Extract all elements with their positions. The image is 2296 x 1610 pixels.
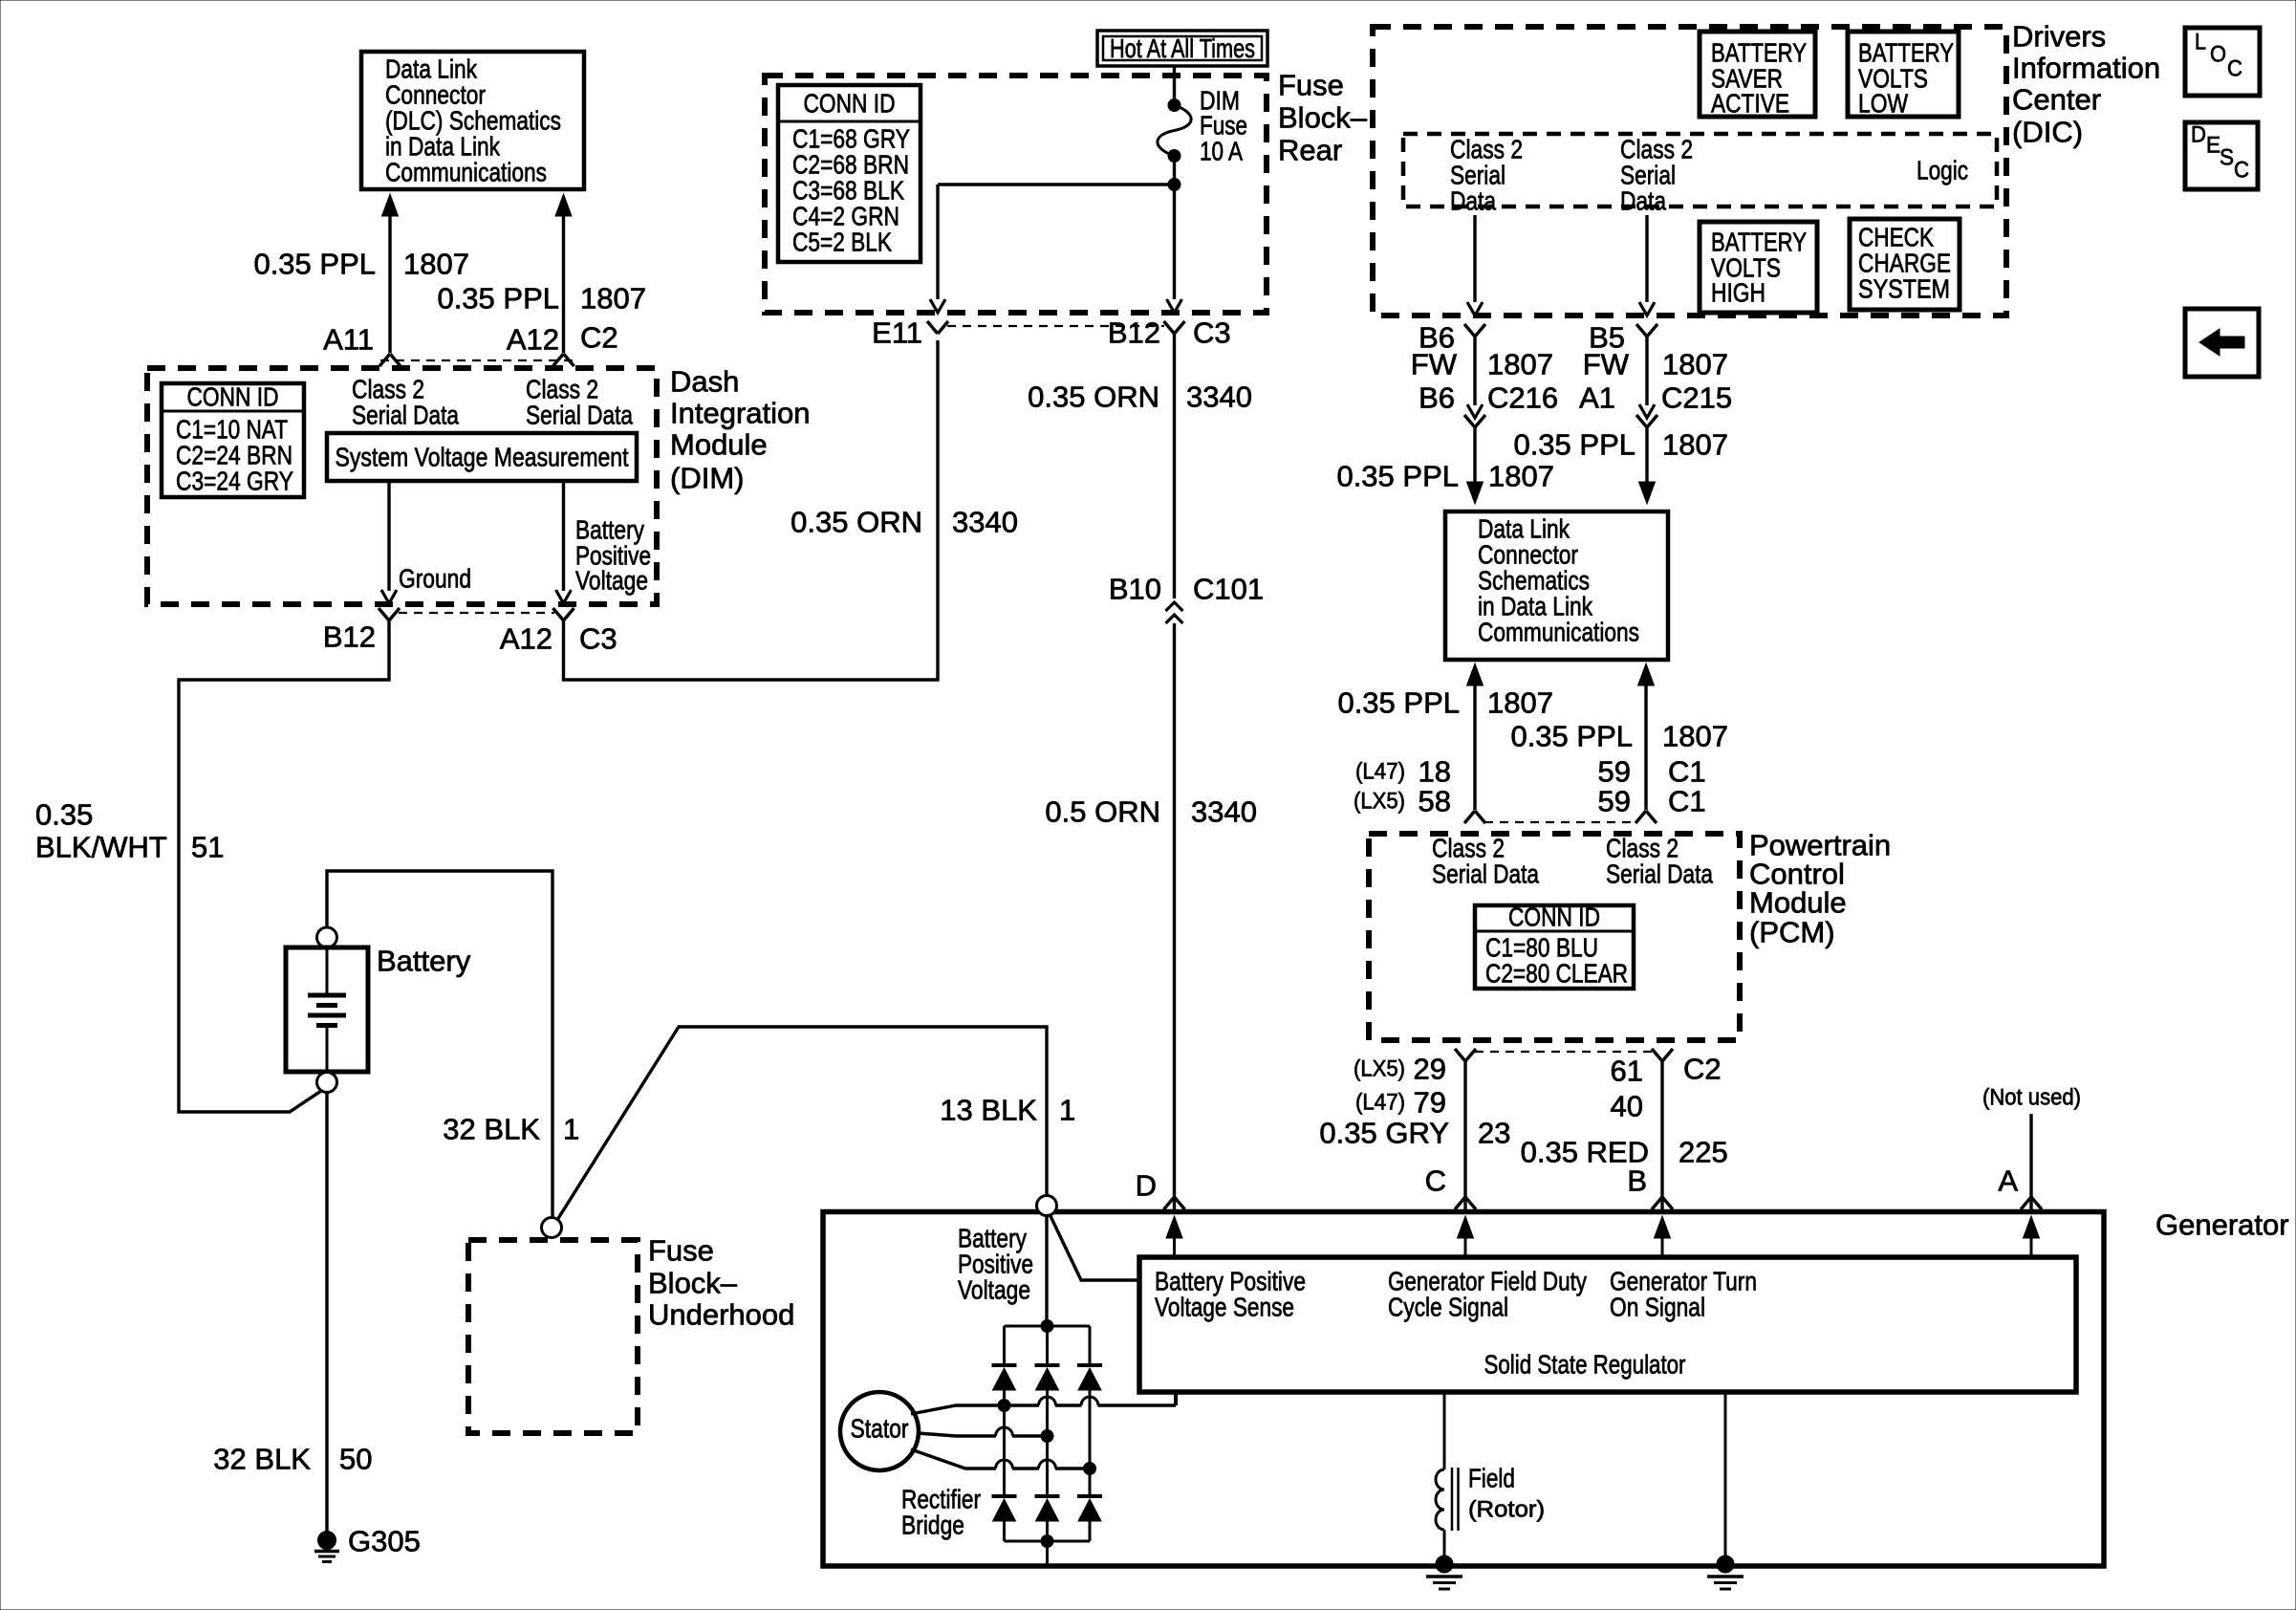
label: Class 2 Serial Data (PCM left) [1432,834,1539,889]
svg-text:Data: Data [1620,186,1666,216]
svg-text:0.35 ORN: 0.35 ORN [791,506,922,539]
svg-text:Serial Data: Serial Data [526,401,633,430]
fuse: DIM Fuse 10 A [1158,99,1191,163]
label: Battery Positive Voltage Sense [1155,1267,1306,1322]
svg-text:Cycle Signal: Cycle Signal [1388,1293,1508,1322]
svg-text:C216: C216 [1487,381,1558,415]
svg-text:29: 29 [1414,1053,1446,1086]
pin labels 61 C2 / 40 [1611,1053,1722,1123]
connector fork A12 at DIM C2 [553,354,574,366]
label: 0.35 BLK/WHT 51 [35,798,224,864]
connector fork A11 at DIM C2 [379,354,401,366]
svg-text:1807: 1807 [1662,428,1728,462]
pin label A [1998,1164,2018,1198]
generator input arrow A [2024,1216,2040,1257]
svg-text:(L47): (L47) [1355,1090,1405,1116]
svg-text:System Voltage Measurement: System Voltage Measurement [336,443,629,472]
svg-text:51: 51 [191,831,224,864]
svg-text:C5=2 BLK: C5=2 BLK [792,228,892,257]
box: Data Link Connector schematics (right) [1445,511,1668,660]
svg-text:Module: Module [670,428,768,462]
svg-text:Serial Data: Serial Data [1432,859,1539,889]
connector fork B12/C3 (fuse block rear bottom) [1164,321,1185,334]
box: BATTERY SAVER ACTIVE indicator [1700,32,1815,119]
terminal circle on fuse block underhood [542,1218,562,1238]
wire: class 2 serial data DIC B6 to C216 [1467,337,1483,418]
svg-text:Bridge: Bridge [901,1511,964,1540]
module box: Drivers Information Center (DIC), dashed [1373,27,2006,315]
module box: Powertrain Control Module (PCM), dashed [1369,834,1740,1040]
svg-text:1807: 1807 [1487,348,1553,381]
wire: regulator ground leg [1724,1392,1727,1565]
label: 0.35 ORN 3340 [1028,381,1252,414]
svg-text:B12: B12 [323,620,376,654]
pin label B [1627,1164,1647,1198]
svg-text:Logic: Logic [1917,156,1968,185]
label: 0.35 PPL 1807 (A11 wire) [253,248,469,281]
label: 32 BLK 50 [213,1443,372,1476]
wire: 0.5 ORN 3340 from C101 to generator D [1173,623,1176,1209]
svg-text:C2=80 CLEAR: C2=80 CLEAR [1485,959,1628,989]
connector C101 pass-through B10 [1166,602,1183,623]
connector fork B5 (DIC bottom) [1636,324,1657,337]
svg-text:(PCM): (PCM) [1749,916,1835,949]
svg-text:E11: E11 [872,316,922,350]
svg-text:Ground: Ground [399,564,471,594]
connector C3 thin dashed line (fuse block rear bottom) [947,325,1164,327]
connector C3 thin dashed line (DIM bottom) [399,612,554,614]
svg-text:B6: B6 [1419,381,1455,415]
svg-text:Data: Data [1450,186,1496,216]
svg-text:50: 50 [339,1443,372,1476]
svg-text:18: 18 [1419,755,1451,789]
pin label B5 [1589,321,1625,355]
svg-text:Serial Data: Serial Data [352,401,459,430]
pin label A11 [323,323,374,357]
svg-text:0.5 ORN: 0.5 ORN [1045,795,1160,829]
svg-text:0.35 ORN: 0.35 ORN [1028,381,1159,414]
label: Class 2 Serial Data (DIM A11) [352,375,459,430]
svg-text:C215: C215 [1661,381,1732,415]
battery B negative terminal [317,1073,337,1093]
svg-text:10 A: 10 A [1200,137,1243,166]
wire: DIM ground internal [381,483,397,603]
label: (LX5) 29 / (L47) 79 [1354,1053,1446,1120]
pin labels 59 C1 / 59 C1 [1598,755,1706,818]
svg-text:(DIC): (DIC) [2012,116,2083,149]
box: Hot At All Times [1097,31,1267,66]
label: 0.35 PPL 1807 (left, into DLC) [1336,460,1554,493]
box: Data Link Connector (DLC) schematics (top left) [361,52,584,189]
label: Generator [2155,1208,2289,1242]
svg-text:Fuse: Fuse [1278,69,1344,102]
svg-text:C: C [2234,158,2249,184]
icon box: DESC [2185,122,2258,190]
svg-text:Drivers: Drivers [2012,20,2106,54]
svg-text:Rear: Rear [1278,134,1342,167]
svg-text:79: 79 [1414,1086,1446,1120]
pin labels A12 / C2 [507,321,618,357]
svg-text:0.35 PPL: 0.35 PPL [1510,720,1633,753]
svg-text:3340: 3340 [1191,795,1257,829]
pin label B6 [1419,321,1455,355]
label: Fuse Block-Rear [1278,69,1368,167]
pin labels B12 / A12 / C3 (below DIM) [323,620,617,656]
module box: Fuse Block-Underhood, dashed [468,1240,638,1433]
pin label B6 / C216 [1419,381,1558,415]
module box: Fuse Block-Rear, dashed [765,76,1267,313]
connector fork B12 (DIM bottom) [379,608,400,620]
pin labels E11 / B12 / C3 [872,316,1231,350]
label: 0.35 PPL 1807 (PCM left) [1337,686,1553,720]
label: Ground [399,564,471,594]
icon box: back arrow [2185,309,2259,377]
svg-text:225: 225 [1679,1136,1728,1169]
box: DIC logic inner dashed box [1403,134,1997,207]
svg-text:Hot At All Times: Hot At All Times [1110,33,1255,63]
connector C1 thin dashed line (PCM top) [1484,821,1636,823]
svg-text:D: D [1136,1169,1157,1203]
label: 0.35 RED 225 [1521,1136,1728,1169]
box: CHECK CHARGE SYSTEM indicator [1850,219,1960,310]
wire: hot feed into DIM fuse [1173,66,1176,105]
wire: stator phase 1 to rectifier and regulator [911,1394,1176,1414]
wire: battery negative to ground G305, 32 BLK 50 [325,1093,328,1534]
wire: fuse output branch to E11 [930,185,1175,313]
svg-text:Communications: Communications [385,158,547,187]
svg-text:B12: B12 [1108,316,1160,350]
svg-text:0.35 GRY: 0.35 GRY [1319,1117,1449,1150]
svg-text:59: 59 [1598,755,1631,789]
pin label A1 / C215 [1579,381,1732,415]
wire: stator phase 3 to rectifier [911,1449,1096,1475]
wire: PCM 18/58 to DLC (left) [1467,664,1484,810]
svg-text:Voltage: Voltage [575,566,648,596]
svg-text:1807: 1807 [1488,460,1554,493]
label: Fuse Block-Underhood [648,1234,794,1332]
label: 32 BLK 1 [443,1113,579,1146]
svg-text:A11: A11 [323,323,374,357]
svg-text:HIGH: HIGH [1711,278,1765,308]
svg-text:O: O [2210,42,2226,68]
label: (L47) 18 / (LX5) 58 [1354,755,1451,818]
svg-text:13 BLK: 13 BLK [940,1094,1037,1127]
generator input arrow D [1166,1216,1182,1257]
svg-text:CONN ID: CONN ID [1508,903,1600,932]
rectifier bridge [992,1320,1103,1566]
connector C2 thin dashed line (PCM bottom) [1475,1051,1653,1053]
connector fork E11 (fuse block rear bottom) [927,321,948,334]
svg-text:0.35 PPL: 0.35 PPL [1336,460,1459,493]
table: DIM CONN ID [162,382,304,498]
svg-text:B10: B10 [1109,573,1161,606]
label: 0.35 GRY 23 [1319,1117,1510,1150]
label: Battery Positive Voltage (DIM) [575,515,651,596]
svg-text:0.35 PPL: 0.35 PPL [1513,428,1635,462]
svg-text:G305: G305 [348,1525,421,1558]
svg-text:A12: A12 [500,622,552,656]
svg-text:(Not used): (Not used) [1982,1085,2081,1111]
svg-text:1807: 1807 [1662,348,1728,381]
label: Rectifier Bridge [901,1485,981,1540]
connector fork A12/C3 (DIM bottom) [553,608,574,620]
svg-text:Voltage: Voltage [958,1275,1030,1305]
svg-text:C101: C101 [1193,573,1264,606]
svg-text:C: C [1425,1164,1446,1198]
connector fork (PCM top left) [1464,811,1485,823]
svg-text:1807: 1807 [1662,720,1728,753]
svg-text:0.35 PPL: 0.35 PPL [253,248,376,281]
label: Class 2 Serial Data (DIC left) [1450,135,1523,216]
label: Powertrain Control Module (PCM) [1749,829,1891,949]
box: Solid State Regulator [1139,1257,2076,1392]
label: FW 1807 (left) [1411,348,1553,381]
generator input arrow B [1655,1216,1671,1257]
svg-text:(L47): (L47) [1355,759,1405,785]
battery B positive terminal [317,927,337,947]
label: G305 [348,1525,421,1558]
svg-text:1: 1 [1059,1094,1075,1127]
ground G305 [314,1532,339,1562]
svg-text:Serial Data: Serial Data [1606,859,1713,889]
svg-text:CONN ID: CONN ID [187,382,279,412]
wire: 0.35 RED 225 PCM to generator B [1660,1061,1663,1209]
connector fork D (generator) [1164,1197,1185,1209]
label: Field (Rotor) [1468,1464,1545,1523]
label: Generator Turn On Signal [1610,1267,1757,1322]
svg-text:32 BLK: 32 BLK [443,1113,540,1146]
connector fork (PCM bottom left) [1455,1049,1476,1061]
svg-text:L: L [2195,30,2206,55]
svg-text:23: 23 [1478,1117,1510,1150]
wire: DIM A12/C3 battery positive voltage to fuse E11 [564,340,939,680]
svg-text:0.35 PPL: 0.35 PPL [1337,686,1460,720]
svg-text:ACTIVE: ACTIVE [1711,89,1789,119]
svg-text:Stator: Stator [851,1414,909,1444]
wire: 0.35 GRY 23 PCM to generator C [1463,1061,1466,1209]
connector C2 thin dashed line (DIM top) [380,359,574,361]
wire: battery positive voltage into rectifier [1045,1216,1048,1327]
connector fork C216 [1464,415,1485,427]
svg-text:S: S [2220,145,2234,171]
svg-text:0.35: 0.35 [35,798,93,832]
label: Class 2 Serial Data (PCM right) [1606,834,1713,889]
box: BATTERY VOLTS LOW indicator [1848,32,1959,119]
label: Dash Integration Module (DIM) [670,365,811,495]
svg-text:Underhood: Underhood [648,1298,794,1332]
connector fork A (generator) [2021,1197,2042,1209]
svg-text:C3: C3 [579,622,617,656]
generator input arrow C [1458,1216,1474,1257]
connector fork C215 [1636,415,1657,427]
svg-text:Block–: Block– [1278,101,1368,135]
svg-text:3340: 3340 [952,506,1018,539]
wire: stator phase 2 to rectifier [918,1427,1053,1443]
wire: battery positive to fuse block underhood, 32 BLK 1 [327,871,552,1218]
svg-text:Block–: Block– [648,1267,738,1300]
svg-text:1807: 1807 [403,248,469,281]
svg-text:Integration: Integration [670,397,811,430]
svg-text:B: B [1627,1164,1647,1198]
label: (Not used) [1982,1085,2081,1111]
module box: Dash Integration Module (DIM), dashed [147,368,657,604]
label: Class 2 Serial Data (DIC right) [1620,135,1693,216]
ground: regulator to generator case [1707,1556,1744,1589]
svg-text:A: A [1998,1164,2018,1198]
wire: fuse output vertical (B12/C3) [1167,156,1182,313]
svg-text:C3=24 GRY: C3=24 GRY [176,467,293,496]
label: 13 BLK 1 [940,1094,1075,1127]
wire: DIC logic to B6 pin internal [1467,215,1483,315]
wire: 0.35 ORN 3340 from fuse B12/C3 to C101 [1173,334,1176,598]
svg-text:BLK/WHT: BLK/WHT [35,831,167,864]
svg-text:Communications: Communications [1478,618,1639,647]
svg-text:58: 58 [1419,785,1451,818]
svg-text:LOW: LOW [1858,89,1908,119]
svg-text:FW: FW [1583,348,1630,381]
svg-text:C3: C3 [1193,316,1231,350]
svg-text:1807: 1807 [580,282,646,315]
svg-text:Information: Information [2012,52,2160,85]
svg-text:59: 59 [1598,785,1631,818]
svg-text:1807: 1807 [1487,686,1553,720]
svg-text:Battery: Battery [377,945,471,978]
box: System Voltage Measurement [327,433,637,481]
svg-text:CONN ID: CONN ID [804,89,896,119]
label: FW 1807 (right) [1583,348,1728,381]
label: 0.5 ORN 3340 [1045,795,1257,829]
svg-text:40: 40 [1611,1090,1643,1123]
svg-text:C: C [2227,56,2242,82]
svg-text:1: 1 [563,1113,579,1146]
wire: generator A not used [2029,1114,2032,1209]
svg-text:(DIM): (DIM) [670,462,744,495]
wire: fuse block underhood to generator battery positive, 13 BLK 1 [557,1027,1047,1220]
wire: class 2 serial data DIC B5 to C215 [1639,337,1655,418]
svg-text:Generator: Generator [2155,1208,2289,1242]
wire: DIC logic to B5 pin internal [1639,215,1655,315]
svg-text:FW: FW [1411,348,1458,381]
svg-text:Fuse: Fuse [648,1234,714,1268]
label: 0.35 PPL 1807 (A12 wire) [437,282,646,315]
svg-text:C2: C2 [1683,1053,1722,1086]
svg-text:Module: Module [1749,886,1847,920]
table: Fuse Block Rear CONN ID [778,85,921,262]
label: 0.35 PPL 1807 (PCM right) [1510,720,1728,753]
svg-text:0.35 PPL: 0.35 PPL [437,282,559,315]
wire: battery positive voltage sense tap [1051,1216,1137,1280]
svg-text:Field: Field [1468,1464,1515,1493]
label: Battery Positive Voltage (generator) [958,1224,1033,1305]
wire: 0.35 PPL 1807 C215 to DLC [1639,427,1656,504]
pin label C [1425,1164,1446,1198]
svg-text:Voltage Sense: Voltage Sense [1155,1293,1294,1322]
wire: DIM A11 class 2 serial data to DLC [382,194,399,353]
connector fork (PCM bottom right) [1652,1049,1673,1061]
label: Drivers Information Center (DIC) [2012,20,2160,149]
stator [840,1392,919,1470]
label: 0.35 PPL 1807 (right, into DLC) [1513,428,1728,462]
connector fork (PCM top right) [1635,811,1657,823]
table: PCM CONN ID [1475,903,1634,990]
connector fork B (generator) [1652,1197,1673,1209]
svg-text:On Signal: On Signal [1610,1293,1705,1322]
wire: 0.35 PPL 1807 C216 to DLC [1467,427,1484,504]
pin labels B10 / C101 [1109,573,1264,606]
svg-text:(LX5): (LX5) [1354,789,1405,815]
svg-text:A1: A1 [1579,381,1615,415]
svg-text:3340: 3340 [1186,381,1252,414]
svg-text:(Rotor): (Rotor) [1468,1497,1545,1523]
connector fork C (generator) [1455,1197,1476,1209]
label: 0.35 ORN 3340 (E11 wire) [791,506,1018,539]
svg-text:32 BLK: 32 BLK [213,1443,311,1476]
box: BATTERY VOLTS HIGH indicator [1700,222,1817,313]
svg-text:C1: C1 [1668,785,1706,818]
svg-text:Dash: Dash [670,365,739,399]
connector fork B6 (DIC bottom) [1464,324,1485,337]
module box: Generator [823,1212,2104,1567]
label: Logic [1917,156,1968,185]
svg-text:D: D [2191,122,2206,148]
icon box: LOC [2185,28,2260,96]
terminal circle: battery positive voltage node [1037,1196,1057,1216]
wire: 0.35 BLK/WHT 51 ground wire from DIM B12 to battery negative [179,620,389,1112]
svg-text:E: E [2206,133,2220,159]
svg-text:(LX5): (LX5) [1354,1056,1405,1082]
svg-text:A12: A12 [507,323,559,357]
label: Class 2 Serial Data (DIM A12) [526,375,633,430]
pin label D [1136,1169,1157,1203]
svg-text:C1: C1 [1668,755,1706,789]
label: Solid State Regulator [1484,1350,1686,1380]
label: Battery [377,945,471,978]
label: Generator Field Duty Cycle Signal [1388,1267,1587,1322]
svg-text:SYSTEM: SYSTEM [1858,274,1950,304]
wire: PCM 59 C1 to DLC (right) [1638,664,1655,810]
svg-text:61: 61 [1611,1055,1643,1088]
svg-text:Solid State Regulator: Solid State Regulator [1484,1350,1686,1380]
wire: DIM battery positive voltage internal [556,483,572,603]
field (rotor) coil [1436,1392,1459,1565]
ground: field coil to generator case [1426,1556,1462,1589]
battery B [286,947,368,1072]
label: DIM Fuse 10 A [1200,86,1247,166]
svg-text:Center: Center [2012,83,2101,117]
wire: DIM A12 class 2 serial data to DLC [555,194,572,353]
svg-text:C2: C2 [580,321,618,355]
label: Stator [851,1414,909,1444]
